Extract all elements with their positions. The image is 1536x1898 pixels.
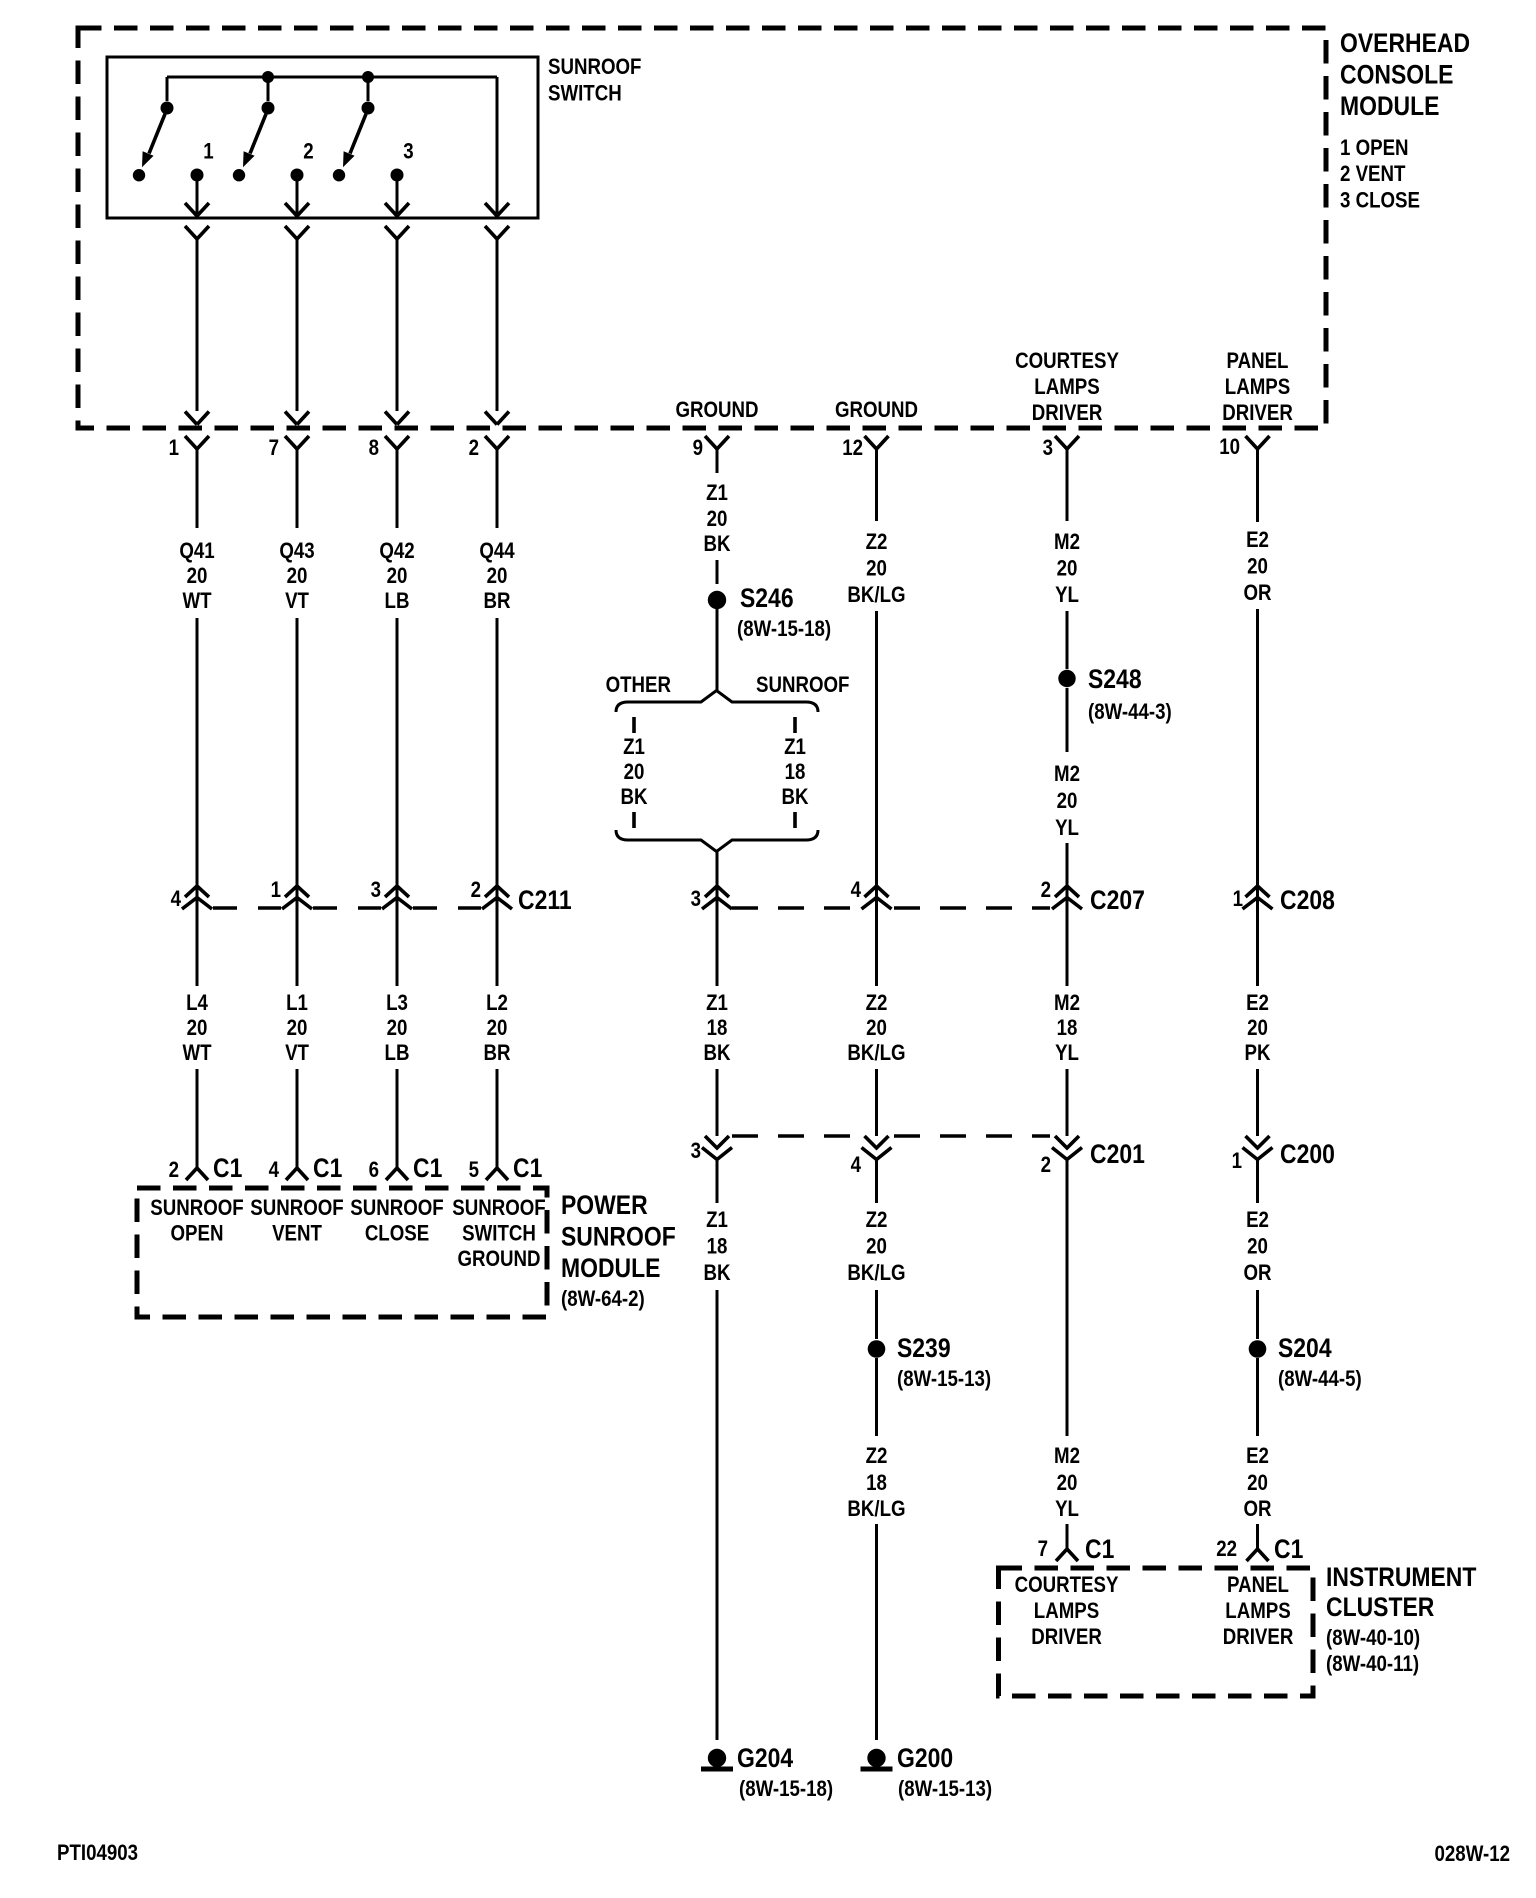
- svg-text:M2: M2: [1054, 763, 1080, 787]
- svg-text:M2: M2: [1054, 531, 1080, 555]
- svg-text:OR: OR: [1243, 582, 1271, 606]
- svg-text:Q41: Q41: [179, 540, 214, 564]
- svg-text:SUNROOF: SUNROOF: [250, 1197, 343, 1221]
- connector C1 pin 6: [369, 1153, 443, 1183]
- svg-text:(8W-15-13): (8W-15-13): [898, 1778, 992, 1802]
- svg-text:BK/LG: BK/LG: [847, 1042, 905, 1066]
- wire Z1 18 BK (sunroof): [781, 736, 808, 810]
- svg-text:MODULE: MODULE: [561, 1253, 660, 1283]
- svg-text:2: 2: [169, 1159, 179, 1183]
- svg-text:(8W-64-2): (8W-64-2): [561, 1288, 645, 1312]
- ground G204: [701, 1743, 833, 1801]
- wire inside module: [385, 226, 409, 425]
- svg-text:G204: G204: [737, 1743, 793, 1773]
- splice S246: [708, 583, 831, 641]
- svg-text:PTI04903: PTI04903: [57, 1842, 138, 1866]
- svg-text:GROUND: GROUND: [457, 1248, 540, 1272]
- svg-text:2: 2: [303, 140, 313, 164]
- svg-text:18: 18: [707, 1017, 728, 1041]
- wire E2 20 OR (2): [1243, 1160, 1271, 1339]
- svg-text:4: 4: [269, 1159, 280, 1183]
- svg-text:LAMPS: LAMPS: [1034, 376, 1099, 400]
- wire Z1 18 BK to G204: [703, 1160, 730, 1740]
- svg-text:12: 12: [842, 437, 863, 461]
- connector C1 pin 5: [469, 1153, 543, 1183]
- svg-text:18: 18: [785, 761, 806, 785]
- svg-text:20: 20: [187, 565, 208, 589]
- svg-text:BK: BK: [703, 533, 730, 557]
- connector C201 dashed ties: [732, 1134, 1050, 1138]
- svg-text:BK: BK: [781, 786, 808, 810]
- svg-text:BR: BR: [483, 1042, 510, 1066]
- module connector pin 9: [693, 436, 729, 473]
- ground G200: [861, 1743, 993, 1801]
- svg-text:C200: C200: [1280, 1139, 1335, 1169]
- svg-text:LB: LB: [385, 1042, 410, 1066]
- svg-text:L2: L2: [486, 992, 508, 1016]
- takeout brace lower: [616, 830, 818, 852]
- svg-text:C1: C1: [213, 1153, 242, 1183]
- switch pole 3 (close): [333, 102, 375, 182]
- connector C200 label: [1280, 1139, 1335, 1169]
- connector C211 pin 4: [171, 886, 212, 911]
- wire Z2 20 BK/LG (2): [847, 992, 905, 1136]
- connector C208 label: [1280, 885, 1335, 915]
- power sunroof module label: [561, 1190, 676, 1311]
- svg-text:S248: S248: [1088, 664, 1142, 694]
- svg-text:LAMPS: LAMPS: [1034, 1600, 1099, 1624]
- svg-text:Z1: Z1: [623, 736, 645, 760]
- svg-text:1: 1: [203, 140, 213, 164]
- connector C211 pin 2: [471, 879, 512, 909]
- svg-text:SUNROOF: SUNROOF: [150, 1197, 243, 1221]
- svg-text:10: 10: [1219, 436, 1240, 460]
- svg-text:3 CLOSE: 3 CLOSE: [1340, 189, 1420, 213]
- overhead console module box: [78, 28, 1326, 428]
- wire Q43 20 VT: [279, 540, 314, 986]
- svg-text:20: 20: [287, 565, 308, 589]
- svg-text:SWITCH: SWITCH: [548, 82, 622, 106]
- svg-text:20: 20: [866, 1235, 887, 1259]
- sheet number PTI04903: [57, 1842, 138, 1866]
- svg-text:PK: PK: [1245, 1042, 1271, 1066]
- wire E2 20 OR: [1243, 529, 1271, 986]
- svg-text:20: 20: [387, 565, 408, 589]
- svg-text:SUNROOF: SUNROOF: [350, 1197, 443, 1221]
- svg-text:Q44: Q44: [479, 540, 515, 564]
- svg-text:Z1: Z1: [706, 482, 728, 506]
- arrowhead col4 at switch box edge: [485, 203, 509, 216]
- wire Z1 to C207: [716, 851, 719, 986]
- wire Z2 20 BK/LG (3): [847, 1160, 905, 1339]
- instrument cluster label: [1326, 1562, 1477, 1676]
- module output label GROUND (pin 12): [835, 399, 918, 423]
- svg-text:Z2: Z2: [866, 992, 888, 1016]
- svg-text:OPEN: OPEN: [171, 1222, 224, 1246]
- switch terminal 3: [391, 140, 414, 181]
- connector C201 pin 4: [851, 1136, 892, 1177]
- svg-text:Z1: Z1: [784, 736, 806, 760]
- svg-text:20: 20: [624, 761, 645, 785]
- wire inside module: [485, 226, 509, 425]
- svg-text:COURTESY: COURTESY: [1015, 1574, 1119, 1598]
- connector C211 dashed ties: [213, 906, 481, 910]
- svg-text:YL: YL: [1055, 1498, 1079, 1522]
- svg-text:18: 18: [866, 1472, 887, 1496]
- svg-text:BK/LG: BK/LG: [847, 1262, 905, 1286]
- svg-text:C207: C207: [1090, 885, 1145, 915]
- svg-text:BK: BK: [703, 1262, 730, 1286]
- wire L3 20 LB: [385, 992, 410, 1168]
- svg-text:YL: YL: [1055, 584, 1079, 608]
- svg-text:CLUSTER: CLUSTER: [1326, 1592, 1434, 1622]
- svg-text:C201: C201: [1090, 1139, 1145, 1169]
- svg-text:20: 20: [1247, 1017, 1268, 1041]
- wire inside module: [185, 226, 209, 425]
- svg-text:WT: WT: [182, 590, 212, 614]
- svg-text:20: 20: [187, 1017, 208, 1041]
- svg-text:LAMPS: LAMPS: [1225, 1600, 1290, 1624]
- svg-text:3: 3: [691, 1140, 701, 1164]
- svg-text:Z2: Z2: [866, 1445, 888, 1469]
- svg-text:G200: G200: [897, 1743, 953, 1773]
- svg-text:BK/LG: BK/LG: [847, 584, 905, 608]
- wire Q42 20 LB: [379, 540, 414, 986]
- svg-text:OR: OR: [1243, 1262, 1271, 1286]
- svg-text:3: 3: [371, 879, 381, 903]
- connector C201 pin 3: [691, 1136, 732, 1163]
- wire E2 20 OR (3): [1243, 1358, 1271, 1549]
- svg-text:2 VENT: 2 VENT: [1340, 163, 1406, 187]
- module output label COURTESY LAMPS DRIVER: [1015, 350, 1119, 426]
- svg-text:3: 3: [1043, 437, 1053, 461]
- splice S248: [1058, 664, 1171, 724]
- svg-text:(8W-15-18): (8W-15-18): [739, 1778, 833, 1802]
- connector C211 pin 3: [371, 879, 412, 909]
- svg-text:E2: E2: [1246, 992, 1269, 1016]
- svg-text:18: 18: [707, 1235, 728, 1259]
- label OTHER: [606, 674, 672, 698]
- svg-text:8: 8: [369, 437, 379, 461]
- connector C211 label: [518, 885, 572, 915]
- svg-text:SUNROOF: SUNROOF: [756, 674, 849, 698]
- svg-text:1: 1: [1233, 888, 1243, 912]
- svg-text:028W-12: 028W-12: [1435, 1843, 1510, 1867]
- svg-text:Z1: Z1: [706, 992, 728, 1016]
- svg-text:L3: L3: [386, 992, 408, 1016]
- module connector pin 10: [1219, 436, 1269, 522]
- svg-text:VT: VT: [285, 1042, 309, 1066]
- svg-text:20: 20: [287, 1017, 308, 1041]
- wire from switch terminal: [185, 181, 209, 217]
- svg-text:L4: L4: [186, 992, 208, 1016]
- wire E2 20 PK: [1245, 992, 1271, 1136]
- svg-text:MODULE: MODULE: [1340, 91, 1439, 121]
- wire Z1 18 BK: [703, 992, 730, 1136]
- svg-text:OR: OR: [1243, 1498, 1271, 1522]
- svg-text:POWER: POWER: [561, 1190, 648, 1220]
- overhead console module label: [1340, 28, 1470, 213]
- svg-text:S239: S239: [897, 1333, 951, 1363]
- svg-text:22: 22: [1216, 1538, 1237, 1562]
- svg-text:5: 5: [469, 1159, 479, 1183]
- module output label GROUND (pin 9): [675, 399, 758, 423]
- svg-text:4: 4: [851, 879, 862, 903]
- svg-text:20: 20: [1247, 555, 1268, 579]
- module connector pin 2: [469, 436, 509, 528]
- svg-text:(8W-44-3): (8W-44-3): [1088, 701, 1172, 725]
- svg-text:20: 20: [487, 565, 508, 589]
- svg-text:S204: S204: [1278, 1333, 1332, 1363]
- svg-text:LAMPS: LAMPS: [1225, 376, 1290, 400]
- takeout brace upper: [616, 691, 818, 713]
- connector C1 pin 7: [1038, 1534, 1115, 1564]
- svg-text:YL: YL: [1055, 1042, 1079, 1066]
- power sunroof module box: [137, 1188, 547, 1317]
- svg-text:SUNROOF: SUNROOF: [452, 1197, 545, 1221]
- svg-text:DRIVER: DRIVER: [1031, 1626, 1102, 1650]
- wire from switch terminal: [385, 181, 409, 217]
- svg-text:7: 7: [1038, 1538, 1048, 1562]
- wire Z1 20 BK (other): [620, 736, 647, 810]
- wire M2 18 YL: [1054, 992, 1080, 1136]
- svg-text:20: 20: [1057, 1472, 1078, 1496]
- svg-text:3: 3: [403, 140, 413, 164]
- svg-text:COURTESY: COURTESY: [1015, 350, 1119, 374]
- module connector pin 7: [269, 436, 309, 528]
- svg-text:(8W-40-11): (8W-40-11): [1326, 1653, 1419, 1677]
- module connector pin 1: [169, 436, 209, 528]
- wire L1 20 VT: [285, 992, 309, 1168]
- connector C207 pin 2: [1041, 879, 1082, 909]
- wire M2 20 YL below S248: [1054, 688, 1080, 986]
- svg-text:(8W-40-10): (8W-40-10): [1326, 1627, 1420, 1651]
- power sunroof module pin names: [150, 1197, 545, 1272]
- svg-text:S246: S246: [740, 583, 794, 613]
- svg-text:DRIVER: DRIVER: [1223, 1626, 1294, 1650]
- svg-text:(8W-44-5): (8W-44-5): [1278, 1368, 1362, 1392]
- svg-text:CONSOLE: CONSOLE: [1340, 60, 1453, 90]
- svg-text:GROUND: GROUND: [675, 399, 758, 423]
- wire Z1 20 BK: [703, 482, 730, 584]
- svg-text:WT: WT: [182, 1042, 212, 1066]
- sunroof switch label: [548, 56, 641, 106]
- module connector pin 12: [842, 436, 888, 521]
- switch terminal 2: [291, 140, 314, 181]
- connector C1 pin 22: [1216, 1534, 1303, 1564]
- svg-text:20: 20: [1247, 1472, 1268, 1496]
- wire M2 20 YL: [1054, 531, 1080, 669]
- switch pole 2 (vent): [233, 102, 275, 182]
- svg-text:20: 20: [1057, 557, 1078, 581]
- wire Q41 20 WT: [179, 540, 214, 986]
- instrument cluster box: [999, 1568, 1314, 1696]
- branch dashes upper: [634, 717, 795, 733]
- svg-text:6: 6: [369, 1159, 379, 1183]
- connector C208 pin 1: [1233, 886, 1273, 911]
- connector C1 pin 2: [169, 1153, 243, 1183]
- svg-text:2: 2: [469, 437, 479, 461]
- svg-text:20: 20: [866, 1017, 887, 1041]
- svg-text:1: 1: [271, 879, 281, 903]
- svg-text:C1: C1: [1085, 1534, 1114, 1564]
- svg-text:E2: E2: [1246, 1209, 1269, 1233]
- svg-text:2: 2: [1041, 879, 1051, 903]
- svg-text:9: 9: [693, 437, 703, 461]
- wire L2 20 BR: [483, 992, 510, 1168]
- svg-text:1 OPEN: 1 OPEN: [1340, 137, 1409, 161]
- svg-text:BR: BR: [483, 590, 510, 614]
- wire M2 20 YL to cluster: [1054, 1160, 1080, 1549]
- switch common bus wire: [167, 77, 497, 217]
- svg-text:YL: YL: [1055, 817, 1079, 841]
- svg-text:C211: C211: [518, 885, 572, 915]
- module connector pin 3: [1043, 436, 1079, 521]
- svg-text:C1: C1: [1274, 1534, 1303, 1564]
- branch dashes lower: [634, 812, 795, 828]
- wire Z2 20 BK/LG: [847, 531, 905, 986]
- svg-text:OVERHEAD: OVERHEAD: [1340, 28, 1470, 58]
- svg-text:DRIVER: DRIVER: [1222, 402, 1293, 426]
- svg-text:LB: LB: [385, 590, 410, 614]
- sunroof switch box: [107, 57, 538, 218]
- connector C211 pin 1: [271, 879, 312, 909]
- svg-text:SUNROOF: SUNROOF: [561, 1222, 676, 1252]
- svg-text:Z2: Z2: [866, 531, 888, 555]
- svg-text:VENT: VENT: [272, 1222, 322, 1246]
- svg-text:7: 7: [269, 437, 279, 461]
- svg-text:4: 4: [851, 1154, 862, 1178]
- module output label PANEL LAMPS DRIVER: [1222, 350, 1293, 426]
- svg-text:1: 1: [1232, 1150, 1242, 1174]
- connector C207 label: [1090, 885, 1145, 915]
- svg-text:INSTRUMENT: INSTRUMENT: [1326, 1562, 1477, 1592]
- svg-text:20: 20: [707, 508, 728, 532]
- svg-text:C1: C1: [513, 1153, 542, 1183]
- svg-text:BK: BK: [703, 1042, 730, 1066]
- svg-text:BK/LG: BK/LG: [847, 1498, 905, 1522]
- svg-text:20: 20: [387, 1017, 408, 1041]
- connector C207 pin 4: [851, 879, 892, 909]
- svg-text:20: 20: [1247, 1235, 1268, 1259]
- svg-text:Z2: Z2: [866, 1209, 888, 1233]
- instrument cluster pin names: [1015, 1574, 1294, 1650]
- svg-text:2: 2: [471, 879, 481, 903]
- svg-text:GROUND: GROUND: [835, 399, 918, 423]
- svg-text:20: 20: [487, 1017, 508, 1041]
- module connector pin 8: [369, 436, 409, 528]
- svg-text:PANEL: PANEL: [1227, 1574, 1289, 1598]
- svg-text:20: 20: [1057, 790, 1078, 814]
- splice S239: [868, 1333, 991, 1391]
- svg-text:L1: L1: [286, 992, 308, 1016]
- svg-text:C1: C1: [413, 1153, 442, 1183]
- svg-text:C208: C208: [1280, 885, 1335, 915]
- svg-text:BK: BK: [620, 786, 647, 810]
- splice S204: [1249, 1333, 1362, 1391]
- svg-text:1: 1: [169, 437, 179, 461]
- svg-text:Q43: Q43: [279, 540, 314, 564]
- svg-text:OTHER: OTHER: [606, 674, 672, 698]
- connector C201 pin 2: [1041, 1136, 1082, 1177]
- svg-text:SWITCH: SWITCH: [462, 1222, 536, 1246]
- svg-text:18: 18: [1057, 1017, 1078, 1041]
- wire from switch terminal: [285, 181, 309, 217]
- wire Z2 18 BK/LG: [847, 1358, 905, 1740]
- svg-text:(8W-15-18): (8W-15-18): [737, 618, 831, 642]
- wire inside module: [285, 226, 309, 425]
- connector C200 pin 1: [1232, 1136, 1273, 1173]
- svg-text:2: 2: [1041, 1154, 1051, 1178]
- svg-text:PANEL: PANEL: [1227, 350, 1289, 374]
- wire Q44 20 BR: [479, 540, 515, 986]
- connector C201 label: [1090, 1139, 1145, 1169]
- sheet number 028W-12: [1435, 1843, 1510, 1867]
- svg-text:C1: C1: [313, 1153, 342, 1183]
- svg-text:E2: E2: [1246, 529, 1269, 553]
- svg-text:Q42: Q42: [379, 540, 414, 564]
- svg-text:20: 20: [866, 557, 887, 581]
- svg-text:M2: M2: [1054, 1445, 1080, 1469]
- svg-text:4: 4: [171, 888, 182, 912]
- connector C207 dashed ties: [732, 906, 1050, 910]
- switch terminal 1: [191, 140, 214, 181]
- svg-text:DRIVER: DRIVER: [1032, 402, 1103, 426]
- svg-text:E2: E2: [1246, 1445, 1269, 1469]
- wire L4 20 WT: [182, 992, 212, 1168]
- svg-text:VT: VT: [285, 590, 309, 614]
- bus junction node: [262, 71, 374, 83]
- svg-text:Z1: Z1: [706, 1209, 728, 1233]
- wire Z1 below S246: [716, 609, 719, 690]
- svg-text:(8W-15-13): (8W-15-13): [897, 1368, 991, 1392]
- svg-text:CLOSE: CLOSE: [365, 1222, 429, 1246]
- connector C207 pin 3: [691, 886, 732, 911]
- svg-text:3: 3: [691, 888, 701, 912]
- label SUNROOF: [756, 674, 849, 698]
- svg-text:M2: M2: [1054, 992, 1080, 1016]
- connector C1 pin 4: [269, 1153, 343, 1183]
- switch pole 1 (open): [133, 102, 174, 182]
- svg-text:SUNROOF: SUNROOF: [548, 56, 641, 80]
